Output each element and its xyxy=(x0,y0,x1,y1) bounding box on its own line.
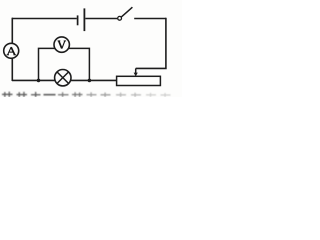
ammeter A1: circle xyxy=(4,43,19,58)
paper background xyxy=(0,0,182,97)
voltmeter V1: branch wire left leg and top run xyxy=(39,48,90,80)
voltmeter V1: circle xyxy=(54,37,69,52)
wire: switch to top-right corner xyxy=(134,18,166,20)
junction node: right voltmeter tap xyxy=(88,79,92,83)
lamp L1: cross stroke 1 xyxy=(57,72,68,83)
voltmeter V1: letter V xyxy=(58,41,67,49)
lamp L1: envelope circle xyxy=(55,70,71,86)
rheostat R1: slider arrow shaft xyxy=(135,68,137,73)
junction node: left voltmeter tap xyxy=(37,79,41,83)
wire: right rail down and jog left to slider xyxy=(136,18,166,69)
ammeter A1: letter A xyxy=(7,47,16,55)
switch S1: pivot circle xyxy=(118,16,122,20)
wire: left rail (top corner to ammeter) xyxy=(11,18,13,44)
rheostat R1: slider arrowhead xyxy=(134,73,138,77)
wire: battery to switch xyxy=(85,18,117,20)
battery B1: long plate (right) xyxy=(83,8,85,31)
lamp L1: cross stroke 2 xyxy=(57,72,68,83)
wire: left rail (ammeter to bottom corner) xyxy=(11,58,13,81)
rheostat R1: resistance body xyxy=(117,76,161,85)
wire: top left horizontal (battery left lead) xyxy=(12,18,77,20)
battery B1: short plate (left) xyxy=(77,15,79,25)
switch S1: open blade xyxy=(121,7,132,17)
wire: bottom horizontal xyxy=(12,79,117,81)
